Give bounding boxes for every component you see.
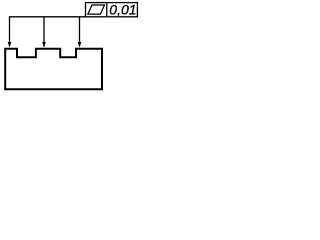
arrowhead 1 bbox=[8, 42, 12, 48]
flatness symbol (parallelogram) bbox=[88, 5, 105, 14]
arrowhead 2 bbox=[42, 42, 46, 48]
arrow stem 2 bbox=[43, 17, 45, 47]
svg-text:0,01: 0,01 bbox=[109, 1, 136, 17]
frame divider bbox=[106, 3, 108, 17]
leader line (horizontal connecting line to frame) bbox=[10, 17, 86, 47]
workpiece outline (castellated block) bbox=[5, 49, 102, 90]
feature control frame bbox=[86, 3, 138, 17]
arrowhead 3 bbox=[78, 42, 82, 48]
arrow stem 3 bbox=[79, 17, 81, 47]
